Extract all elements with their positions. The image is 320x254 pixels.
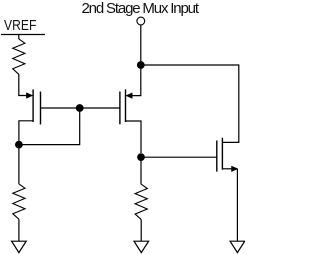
label 2nd Stage Mux Input: [82, 0, 200, 17]
transistor Q2: [120, 89, 132, 124]
wire node D to Q3 gate: [141, 156, 217, 158]
wire Q2 source to node D: [126, 121, 142, 153]
label VREF: [4, 17, 36, 34]
wire Q3 source arrow: [222, 168, 231, 170]
wire node C to Q3 drain: [141, 65, 239, 142]
node D: [137, 153, 145, 161]
resistor R2: [13, 184, 25, 219]
svg-text:VREF: VREF: [4, 17, 36, 34]
ground G2: [134, 241, 149, 252]
ground G3: [230, 241, 245, 252]
wire gate bus Q1 to Q2: [41, 107, 120, 109]
wire terminal to node C: [140, 25, 142, 65]
wire node D to R3: [140, 157, 142, 184]
wire node A down to node B: [19, 108, 80, 145]
svg-text:2nd Stage Mux Input: 2nd Stage Mux Input: [82, 0, 200, 17]
node C: [137, 61, 145, 69]
transistor Q3: [217, 138, 238, 172]
wire R1 to Q1 drain: [19, 74, 28, 95]
transistor Q1: [26, 89, 40, 124]
terminal 2nd stage mux input: [137, 17, 145, 25]
wire VREF bar to R1: [18, 35, 20, 40]
resistor R3: [135, 184, 147, 219]
VREF terminal bar: [1, 34, 45, 36]
wire node C to Q2 drain: [132, 65, 141, 96]
node A gate junction: [76, 104, 84, 112]
wire Q3 source to ground: [236, 169, 238, 241]
node B: [15, 141, 23, 149]
wire Q1 source to node B: [19, 121, 33, 141]
wire R2 to ground: [18, 219, 20, 241]
ground G1: [12, 241, 27, 252]
wire node B to R2: [18, 145, 20, 184]
resistor R1: [13, 39, 25, 74]
wire R3 to ground: [140, 219, 142, 241]
